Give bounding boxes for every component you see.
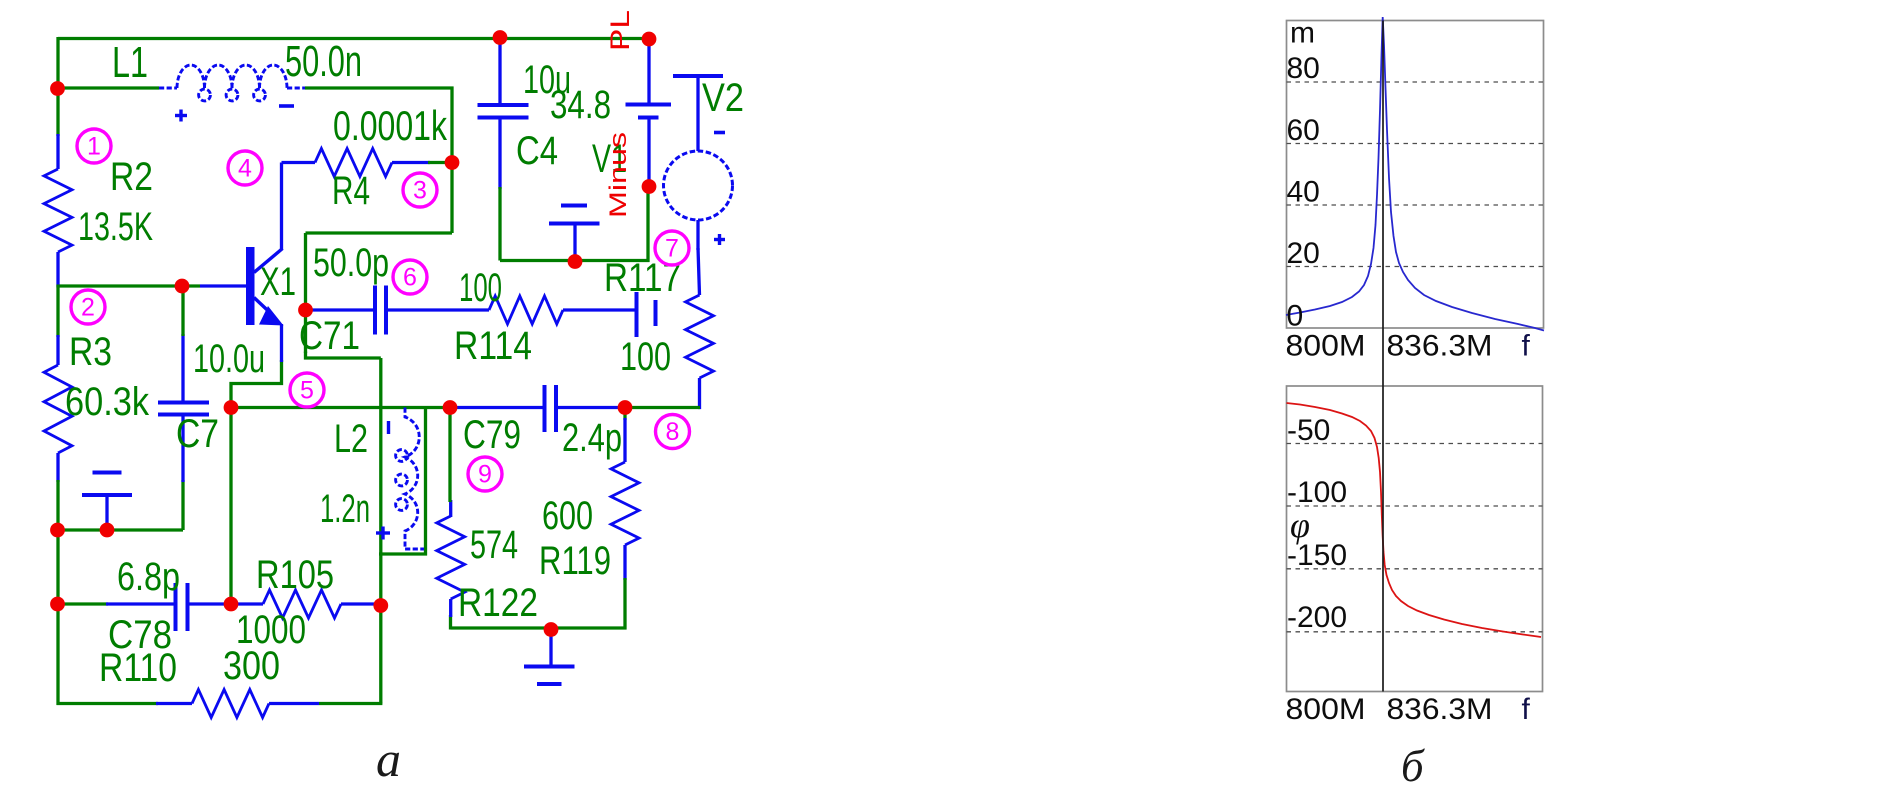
transistor X1 collector diagonal	[254, 249, 283, 273]
cursor vertical line at 836.3M	[1382, 21, 1384, 692]
junction dot: node 3 junction	[445, 155, 460, 170]
wire ground rail y530	[58, 528, 183, 531]
svg-text:C4: C4	[516, 129, 558, 173]
wire R110 left lead blue	[156, 702, 192, 705]
wire bottom rail of R122/R119 loop y628	[451, 626, 627, 629]
transistor X1 emitter arrowhead	[259, 306, 284, 326]
wire L1 right lead to right riser	[305, 86, 454, 89]
svg-text:10.0u: 10.0u	[193, 337, 265, 381]
wire collector riser x281.5 up to R4 left lead	[280, 163, 283, 251]
svg-text:836.3M: 836.3M	[1387, 330, 1493, 363]
svg-text:20: 20	[1287, 237, 1320, 270]
wire C71 right lead to R114	[387, 308, 490, 311]
junction dot: top-right junction	[642, 32, 657, 47]
svg-text:f: f	[1522, 693, 1531, 726]
wire bottom rail green right	[319, 702, 382, 705]
svg-text:Minus: Minus	[605, 132, 632, 218]
ground (bottom right) stem	[549, 630, 552, 666]
svg-text:5: 5	[300, 377, 314, 405]
svg-text:C7: C7	[176, 412, 219, 456]
source V2 minus mark	[714, 131, 725, 135]
node 8 marker	[656, 415, 690, 449]
inductor L1 plus mark	[175, 114, 187, 117]
capacitor C79 (2.4p)	[543, 385, 547, 432]
svg-text:3: 3	[413, 177, 427, 205]
svg-text:1.2n: 1.2n	[320, 487, 370, 531]
svg-text:C79: C79	[463, 413, 521, 457]
wire R105 left lead blue	[231, 602, 263, 605]
node 7 marker	[655, 231, 689, 265]
junction dot: middle ground junction	[568, 254, 583, 269]
svg-text:8: 8	[666, 418, 680, 446]
junction dot: node 5 junction	[224, 400, 239, 415]
svg-text:-200: -200	[1287, 601, 1347, 634]
junction dot: ground stem junction	[100, 523, 115, 538]
wire top rail	[58, 37, 649, 40]
magnitude curve (blue)	[1286, 17, 1544, 331]
wire bottom rail green left	[57, 702, 159, 705]
battery symbol at node 7 short plate	[654, 300, 658, 326]
node 1 marker	[77, 129, 111, 163]
ground (bottom right) short bar	[537, 682, 562, 686]
junction dot: V1 bottom junction	[642, 179, 657, 194]
battery V1 (34.8) top stem	[647, 38, 650, 104]
node 6 marker	[393, 260, 427, 294]
wire horizontal y233 (node3 leg to C71 branch)	[306, 231, 453, 234]
svg-text:0.0001k: 0.0001k	[333, 102, 448, 149]
wire left column down to bottom rail	[56, 604, 59, 705]
resistor R3 (60.3k)	[44, 365, 72, 453]
resistor R2 (13.5K)	[44, 169, 72, 252]
junction dot: C71 left junction	[298, 303, 313, 318]
wire riser x648 to battery V1 bottom	[646, 186, 649, 262]
junction dot: node5/C79 junction	[443, 400, 458, 415]
wire emitter to node 5	[231, 360, 282, 408]
svg-text:50.0n: 50.0n	[285, 37, 362, 86]
wire R4 right lead green to node 3	[428, 161, 452, 164]
svg-text:50.0p: 50.0p	[313, 241, 389, 285]
junction dot: node 2 / C7 junction	[175, 279, 190, 294]
inductor L1 minus mark	[279, 104, 294, 108]
svg-text:574: 574	[470, 523, 518, 567]
wire top-left corner down to L1 node	[56, 37, 59, 89]
wire base lead blue	[200, 284, 246, 287]
resistor R122 (574)	[437, 516, 465, 599]
svg-text:0: 0	[1287, 300, 1304, 333]
svg-text:V2: V2	[702, 76, 744, 120]
wire C79 left lead	[450, 406, 545, 409]
svg-text:-50: -50	[1287, 414, 1330, 447]
ground (left) short bar	[93, 471, 122, 475]
wire R119 bottom lead blue	[623, 545, 626, 580]
source V2 bottom stem	[696, 220, 699, 250]
wire node5 down to C78/R105 junction	[229, 408, 232, 605]
svg-text:13.5K: 13.5K	[78, 205, 153, 249]
phase plot frame	[1287, 386, 1543, 692]
wire R119 top lead green	[623, 408, 626, 421]
junction dot: node 8 junction	[618, 400, 633, 415]
wire R3 top lead blue	[56, 335, 59, 365]
battery V1 bottom stem	[647, 118, 650, 187]
svg-text:L2: L2	[334, 417, 368, 461]
wire C7 bottom lead blue	[181, 416, 184, 482]
wire R122 top lead blue	[449, 500, 452, 517]
wire node 5 horizontal y407.5	[231, 406, 450, 409]
resistor R114 (100)	[489, 296, 563, 324]
transistor X1 base bar	[246, 247, 255, 325]
svg-text:6.8p: 6.8p	[117, 555, 180, 599]
ground (left) long bar	[82, 493, 132, 497]
wire left column y530 to C78 junction	[56, 530, 59, 604]
svg-text:f: f	[1522, 330, 1531, 363]
inductor L1 (50.0n) coil	[159, 65, 305, 101]
svg-text:C71: C71	[299, 314, 360, 358]
wire C79 right lead	[556, 406, 625, 409]
source V2 top bar	[673, 74, 723, 78]
wire R4 left lead	[282, 161, 316, 164]
wire node5 down to R122 green	[448, 408, 451, 503]
inductor L2 frame bottom	[379, 552, 427, 555]
svg-text:2: 2	[81, 294, 95, 322]
svg-text:a: a	[376, 731, 401, 787]
svg-text:7: 7	[665, 235, 679, 263]
wire emitter lead down	[280, 324, 283, 362]
svg-text:φ: φ	[1290, 505, 1310, 545]
svg-text:300: 300	[223, 644, 280, 688]
svg-text:34.8: 34.8	[550, 83, 611, 127]
ground (middle) stem	[573, 224, 576, 259]
wire R117 bottom lead	[698, 378, 700, 408]
junction dot: C78 left junction	[50, 597, 65, 612]
svg-text:60: 60	[1287, 114, 1320, 147]
capacitor C7 (10.0u)	[158, 401, 209, 405]
svg-text:R110: R110	[99, 646, 177, 690]
resistor R4 (0.0001k)	[315, 149, 392, 177]
wire C71 left lead	[306, 308, 376, 311]
svg-text:m: m	[1290, 17, 1315, 50]
wire R2 top lead blue	[56, 134, 59, 169]
ground (middle) long bar	[549, 222, 600, 226]
magnitude plot frame	[1287, 21, 1544, 329]
wire C78 right lead blue	[188, 602, 232, 605]
wire R122 bottom lead blue	[449, 599, 452, 617]
resistor R119 (600)	[611, 462, 639, 545]
svg-text:4: 4	[238, 155, 252, 183]
svg-text:6: 6	[403, 264, 417, 292]
ground (middle, above y260 rail) short bar	[561, 204, 587, 208]
wire R122 bottom corner green	[449, 615, 452, 630]
svg-text:R119: R119	[539, 539, 611, 583]
wire C78 left lead green	[58, 602, 108, 605]
wire node 2 horizontal (base wire, green part)	[58, 284, 200, 287]
node 5 marker	[290, 373, 324, 407]
node 3 marker	[403, 173, 437, 207]
magnitude plot gridlines	[1287, 82, 1544, 267]
svg-text:80: 80	[1287, 52, 1320, 85]
capacitor C4 (10u)	[478, 103, 529, 107]
svg-text:R117: R117	[604, 256, 681, 300]
inductor L2 plus mark	[376, 531, 390, 534]
resistor R117 (100)	[686, 295, 714, 378]
wire jog from C71 junction to long riser x380.8	[306, 352, 381, 359]
wire C4 bottom lead blue	[498, 118, 501, 189]
svg-text:R2: R2	[110, 155, 153, 199]
battery V1 short plate	[638, 116, 659, 120]
svg-text:2.4p: 2.4p	[562, 416, 622, 460]
resistor R110 (300)	[192, 690, 269, 718]
junction dot: R105 right junction	[373, 598, 388, 613]
wire L1 left lead	[58, 86, 159, 89]
svg-text:X1: X1	[260, 260, 296, 304]
phase curve (red)	[1287, 403, 1542, 637]
svg-text:100: 100	[459, 266, 502, 310]
junction dot: node1 junction	[50, 81, 65, 96]
ground (left) stem	[105, 496, 108, 530]
svg-text:б: б	[1401, 741, 1425, 789]
wire R114 right lead	[563, 308, 636, 311]
wire bottom of C4 loop y260.5	[500, 259, 650, 262]
wire C7 top lead green to node2	[181, 286, 184, 336]
svg-text:40: 40	[1287, 176, 1320, 209]
wire C4 bottom lead green	[498, 187, 501, 261]
wire node 8 to R117 corner green	[625, 406, 700, 409]
svg-text:R4: R4	[332, 169, 370, 213]
phase plot gridlines	[1287, 444, 1543, 632]
svg-text:R105: R105	[256, 553, 334, 597]
wire R119 bottom lead green	[623, 578, 626, 630]
inductor L2 phase tick	[387, 421, 390, 434]
svg-text:1: 1	[87, 133, 101, 161]
ground (bottom right) long bar	[524, 665, 575, 669]
source V2 plus mark	[714, 238, 725, 241]
wire left column to ground rail	[56, 480, 59, 530]
wire R119 top lead blue	[623, 418, 626, 462]
source V2 top stem	[696, 77, 699, 151]
svg-text:L1: L1	[112, 38, 148, 87]
node 2 marker	[71, 290, 105, 324]
svg-text:800M: 800M	[1286, 693, 1366, 726]
junction dot: C78/R105 junction	[224, 597, 239, 612]
svg-text:836.3M: 836.3M	[1387, 693, 1493, 726]
wire V2 to R117	[698, 248, 700, 295]
capacitor C78 (6.8p)	[174, 583, 178, 631]
wire R105 right lead blue	[341, 602, 381, 605]
wire R3 bottom lead blue	[56, 453, 59, 482]
svg-text:60.3k: 60.3k	[65, 380, 150, 424]
wire C78 left lead blue	[106, 602, 175, 605]
svg-text:800M: 800M	[1286, 330, 1366, 363]
junction dot: left ground rail junction	[50, 523, 65, 538]
wire vertical x305.5 down to C71 junction	[304, 233, 307, 353]
junction dot: C4 top junction	[493, 30, 508, 45]
svg-text:600: 600	[542, 494, 593, 538]
battery V1 long plate	[626, 103, 672, 107]
junction dot: right ground junction	[544, 622, 559, 637]
node 4 marker	[228, 151, 262, 185]
wire R4 right lead blue	[392, 161, 430, 164]
wire left column: node1 to R2 top	[56, 88, 59, 136]
battery symbol at node 7 (R114 output) long plate	[635, 292, 639, 337]
wire R2 bottom lead blue	[56, 252, 59, 288]
svg-text:100: 100	[620, 335, 671, 379]
transistor X1 emitter diagonal	[254, 298, 272, 315]
node 9 marker	[468, 457, 502, 491]
wire C7 top lead blue	[181, 334, 184, 401]
wire left column node2 down	[56, 285, 59, 338]
resistor R105 (1000)	[263, 590, 341, 618]
wire R110 right lead blue	[269, 702, 319, 705]
wire long riser x380.8 from y358 to bottom rail	[379, 358, 382, 704]
svg-text:R3: R3	[69, 330, 112, 374]
svg-text:9: 9	[478, 461, 492, 489]
inductor L2 winding	[396, 408, 424, 550]
svg-text:PL: PL	[605, 10, 635, 51]
wire right riser x452 (L1 right down to node 3 and y233)	[450, 87, 453, 234]
source V2 circle	[664, 151, 733, 220]
svg-text:R114: R114	[454, 324, 532, 368]
capacitor C71 (50.0p)	[373, 286, 377, 335]
svg-text:R122: R122	[458, 581, 538, 625]
inductor L2 (1.2n) frame right leg	[424, 406, 427, 556]
wire C7 bottom lead green	[181, 480, 184, 530]
wire C4 top lead	[498, 38, 501, 107]
